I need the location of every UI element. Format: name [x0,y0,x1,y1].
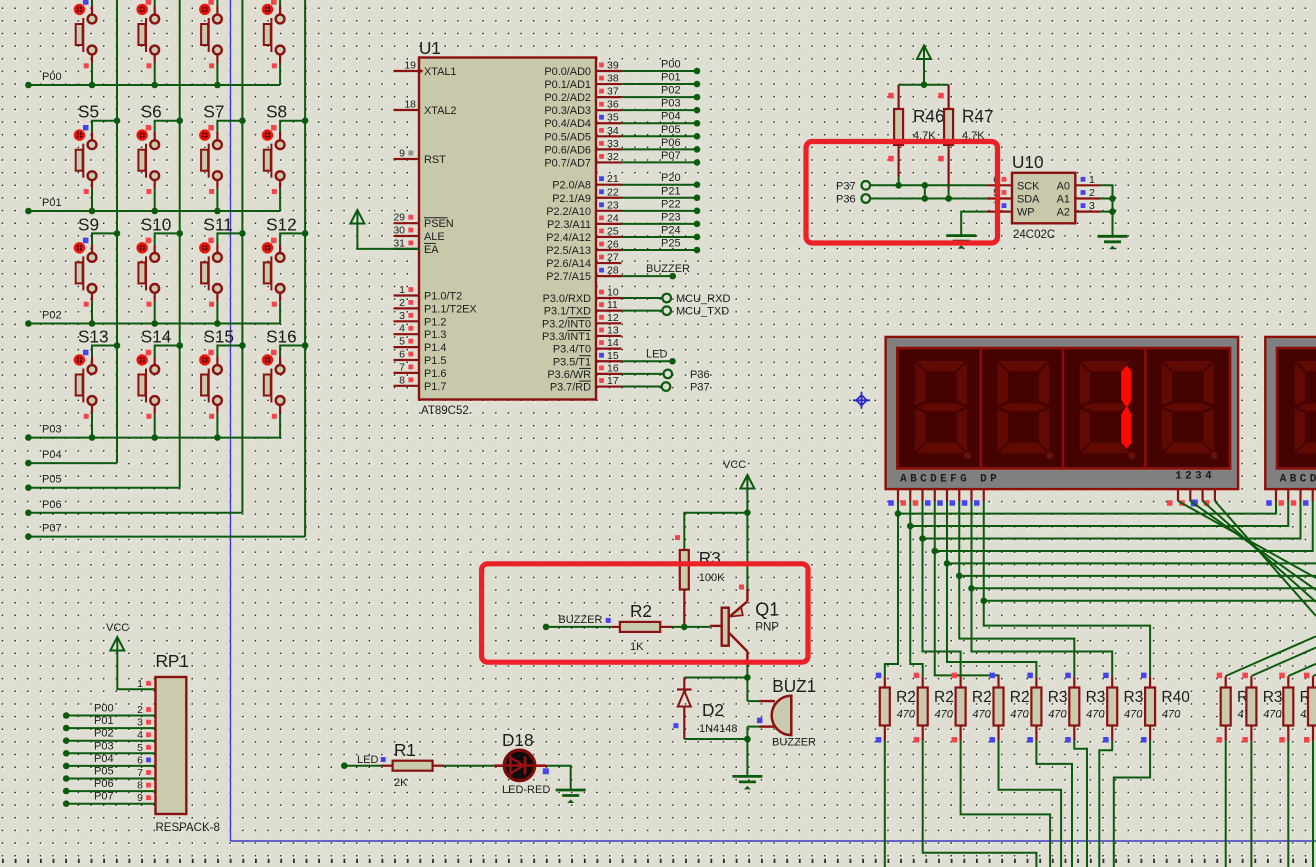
svg-text:4: 4 [399,323,405,335]
U10 pin 1 A0 [1057,174,1101,193]
svg-text:P01: P01 [42,197,62,209]
wire net P03 to RP1 pin 5 [63,750,156,757]
push button S5 [75,102,121,215]
wire net P06 to RP1 pin 8 [63,788,156,795]
resistor R1 [381,761,444,771]
push button S7 [200,102,246,215]
push button S3 [200,0,246,88]
svg-text:P3.1/TXD: P3.1/TXD [544,306,591,318]
resistor R36 470 [1304,673,1316,743]
svg-text:S8: S8 [266,102,287,122]
svg-text:P0.1/AD1: P0.1/AD1 [544,79,591,91]
wire U1 P2.7 to net BUZZER [622,273,677,280]
svg-text:470: 470 [1048,709,1067,721]
transistor Q1 PNP [722,513,748,665]
wire DS1 segment D to resistor 4 [935,551,999,676]
wire resistor R32 to bottom [1099,741,1112,867]
wire R2 to Q1 base [672,624,722,631]
svg-text:S12: S12 [266,214,297,234]
wire D2 cathode to ground node [684,736,750,743]
U1 pin 7 P1.6 [394,361,447,380]
7-segment display DS1 body [886,337,1239,489]
svg-text:3: 3 [1089,200,1095,212]
svg-text:BUZZER: BUZZER [646,263,690,275]
power VCC symbol near U1 EA [350,210,364,224]
wire column bus P05 [179,0,181,488]
svg-text:P04: P04 [661,111,681,123]
push button S12 [263,214,309,323]
DS1 segment pin G [962,489,972,506]
svg-text:S5: S5 [78,102,99,122]
svg-text:AT89C52: AT89C52 [421,405,469,417]
wire net P07 [25,533,305,540]
svg-text:P36: P36 [690,369,710,381]
svg-text:15: 15 [607,350,619,362]
svg-text:P3.3/INT1: P3.3/INT1 [542,331,591,343]
svg-text:P0.2/AD2: P0.2/AD2 [544,92,591,104]
DS1 segment pin E [937,489,947,506]
push button S16 [263,327,309,438]
svg-text:10: 10 [607,287,619,299]
svg-text:2K: 2K [394,777,408,789]
svg-text:U1: U1 [419,38,441,58]
wire R1 to D18 [444,765,497,767]
svg-text:16: 16 [607,362,619,374]
svg-text:S11: S11 [203,214,232,234]
svg-text:R1: R1 [394,740,416,760]
svg-text:Q1: Q1 [755,600,779,620]
resistor R26 470 [914,673,928,743]
push button S14 [137,327,183,441]
svg-text:P37: P37 [836,180,856,192]
RP1 pin 8 [137,780,151,792]
ground symbol below D18 [556,790,586,803]
wire VCC to Q1 emitter and R3 [684,489,750,551]
blue pin mark near R1 [381,757,386,762]
svg-text:9: 9 [137,792,143,804]
svg-text:P06: P06 [94,778,114,790]
svg-text:P23: P23 [661,211,681,223]
svg-text:P04: P04 [42,449,62,461]
svg-text:11: 11 [607,299,618,311]
svg-text:P2.7/A15: P2.7/A15 [546,271,591,283]
DS1 digit pin 4 [1204,489,1215,506]
wire DS1 segment DP bus [980,501,1316,604]
svg-text:P1.6: P1.6 [424,368,446,380]
DS1 digit divider [1144,349,1146,467]
svg-text:23: 23 [607,199,619,211]
svg-text:1234: 1234 [1175,471,1215,483]
svg-text:R2: R2 [934,689,954,706]
blue pin mark near BUZZER [606,618,611,623]
U1 pin 31 EA [393,237,439,256]
svg-text:ALE: ALE [424,231,445,243]
svg-text:34: 34 [607,125,619,137]
wire row net P03 [25,434,280,441]
RP1 pin 9 [137,792,151,804]
U1 pin 25 P2.4/A12 [546,225,621,244]
svg-text:2: 2 [137,704,143,716]
svg-text:ABCDEFG DP: ABCDEFG DP [1280,474,1316,486]
svg-text:P0.0/AD0: P0.0/AD0 [544,66,591,78]
svg-text:1: 1 [137,678,143,690]
wire resistor R34 to bottom [1250,741,1252,867]
svg-text:SDA: SDA [1017,194,1040,206]
U1 pin 15 P3.5/T1 [553,350,622,369]
svg-text:PSEN: PSEN [424,218,454,230]
push button S11 [200,214,246,326]
wire net P01 to RP1 pin 3 [63,725,156,732]
svg-text:P3.5/T1: P3.5/T1 [553,356,591,368]
resistor pack RP1 body [156,677,187,814]
svg-text:22: 22 [607,186,619,198]
wire net BUZZER to R2 [543,624,612,631]
wire U1 P3.7 to terminal P37 [622,382,671,391]
svg-text:1K: 1K [630,641,644,653]
resistor R2 [612,622,672,632]
wire U1 P2.1 to net P21 [622,194,701,201]
svg-text:8: 8 [137,780,143,792]
wire column bus P04 [116,0,118,463]
svg-text:18: 18 [404,99,416,111]
svg-text:6: 6 [399,349,405,361]
svg-text:SCK: SCK [1017,180,1040,192]
svg-text:R46: R46 [913,106,945,126]
RP1 pin 6 [137,754,151,766]
svg-text:ABCDEFG DP: ABCDEFG DP [900,474,1000,486]
wire DS1 segment D bus [931,501,1312,554]
svg-text:P07: P07 [42,523,62,535]
svg-text:470: 470 [1263,709,1282,721]
svg-text:WP: WP [1017,207,1035,219]
wire resistor R27 to bottom [961,741,1051,867]
U1 pin 28 P2.7/A15 [546,265,621,284]
svg-text:1: 1 [399,284,405,296]
svg-text:36: 36 [607,99,619,111]
wire buzzer to ground [746,739,748,776]
wire net P07 to RP1 pin 9 [63,800,156,807]
svg-text:XTAL1: XTAL1 [424,66,457,78]
svg-text:P3.4/T0: P3.4/T0 [553,344,591,356]
svg-text:P1.3: P1.3 [424,329,446,341]
svg-text:P21: P21 [661,185,681,197]
wire column bus P06 [241,0,243,513]
svg-text:VCC: VCC [106,622,129,634]
wire U1 P3.0 to terminal MCU_RXD [622,294,672,303]
resistor R28 470 [989,673,1003,743]
wire diagonal to resistor R36 [1313,675,1316,676]
power VCC symbol above R46/R47 [917,46,931,60]
DS1 segment pin C [913,489,923,506]
wire DS1 segment DP to resistor 8 [984,601,1150,677]
svg-text:P25: P25 [661,238,681,250]
svg-text:P1.2: P1.2 [424,316,446,328]
wire DS1 segment F bus [956,501,1316,579]
RP1 pin 2 [137,704,151,716]
U1 pin 17 P3.7/RD [550,375,622,394]
ground symbol below BUZ1 [732,776,762,789]
U1 pin 23 P2.2/A10 [546,199,621,218]
svg-text:D2: D2 [702,700,724,720]
svg-text:13: 13 [607,324,619,336]
U10 pin 7 WP [987,200,1035,219]
svg-text:R40: R40 [1161,689,1190,706]
svg-text:R2: R2 [896,689,916,706]
push button S6 [137,102,183,215]
U1 pin 39 P0.0/AD0 [544,60,621,79]
svg-text:470: 470 [935,709,954,721]
svg-text:P2.1/A9: P2.1/A9 [552,193,591,205]
svg-text:38: 38 [607,73,619,85]
svg-text:35: 35 [607,112,619,124]
red highlight box around EEPROM circuit [806,142,998,244]
svg-text:BUZ1: BUZ1 [772,676,816,696]
svg-text:P05: P05 [94,766,114,778]
svg-text:P3.2/INT0: P3.2/INT0 [542,318,591,330]
wire row net P00 [25,82,280,89]
wire net P00 to RP1 pin 2 [63,712,156,719]
DS1 segment pin D [925,489,935,506]
svg-text:R47: R47 [962,106,994,126]
svg-text:P06: P06 [42,499,62,511]
wire diagonal to resistor R35 [1288,664,1316,676]
svg-text:R3: R3 [1048,689,1068,706]
U1 pin 9 RST [394,148,447,167]
push button S10 [137,214,183,326]
svg-text:4: 4 [137,729,143,741]
wire diagonal to resistor R33 [1226,636,1316,676]
svg-text:32: 32 [607,151,619,163]
U1 pin 35 P0.4/AD4 [544,112,621,130]
svg-text:A1: A1 [1057,194,1070,206]
DS2 segment pin C [1291,489,1301,506]
svg-text:S7: S7 [203,102,224,122]
wire U1 P2.3 to net P23 [622,221,701,228]
U1 pin 38 P0.1/AD1 [544,73,621,92]
svg-text:D18: D18 [502,730,534,750]
svg-text:39: 39 [607,60,619,72]
wire U1 P2.5 to net P25 [622,247,701,254]
wire DS1 segment A bus [895,501,1276,517]
DS2 digit 1 segments [1295,361,1316,459]
wire DS1 segment A to resistor 1 [885,514,898,677]
svg-text:S10: S10 [141,214,172,234]
svg-text:470: 470 [897,709,916,721]
resistor R3 [675,535,689,627]
U1 pin 2 P1.1/T2EX [394,297,478,316]
U1 pin 32 P0.7/AD7 [544,151,621,170]
U1 pin 24 P2.3/A11 [547,212,622,231]
wire diagonal to resistor R34 [1251,648,1316,676]
DS1 digit 2 segments [997,361,1053,459]
wire resistor R35 to bottom [1287,741,1289,867]
U1 pin 5 P1.4 [394,336,447,355]
svg-text:S14: S14 [141,327,172,347]
wire VCC to U1 EA pin [357,224,419,249]
U1 pin 18 XTAL2 [394,99,457,118]
U1 pin 30 ALE [393,225,444,244]
svg-text:14: 14 [607,337,619,349]
wire VCC down to R46 R47 [899,59,949,88]
wire net P06 [25,510,242,517]
U1 pin 13 P3.3/INT1 [542,324,622,343]
svg-text:P2.3/A11: P2.3/A11 [547,219,591,231]
RP1 pin 7 [137,767,151,779]
svg-text:33: 33 [607,138,619,150]
U1 pin 6 P1.5 [394,349,447,368]
svg-text:S6: S6 [141,102,162,122]
svg-text:8: 8 [399,374,405,386]
wire DS1 digit 2 select diagonal [1190,501,1316,590]
DS1 digit pin 3 [1191,489,1203,506]
DS1 digit divider [980,349,982,467]
DS1 segment pin A [888,489,898,506]
U1 pin 22 P2.1/A9 [552,186,621,205]
svg-text:30: 30 [393,225,405,237]
wire resistor R40 to bottom [1114,741,1150,867]
U1 pin 27 P2.6/A14 [546,252,621,271]
svg-text:LED: LED [646,348,667,360]
wire U1 P3.1 to terminal MCU_TXD [622,306,672,315]
wire Q1 collector to buzzer node [684,665,759,739]
DS2 segment pin A [1266,489,1276,506]
DS2 segment pin B [1279,489,1289,506]
wire U1 P2.2 to net P22 [622,208,701,215]
svg-text:27: 27 [607,252,619,264]
svg-text:P22: P22 [661,198,681,210]
wire U10 A0 A1 A2 to ground [1100,185,1115,236]
svg-text:P05: P05 [661,124,681,136]
wire net P04 to RP1 pin 6 [63,763,156,770]
bottom grid tick row [2,859,1307,863]
wire DS1 segment C bus [919,501,1300,542]
wire DS1 segment G bus [968,501,1316,592]
svg-text:A2: A2 [1057,207,1070,219]
wire net P02 to RP1 pin 4 [63,737,156,744]
svg-text:17: 17 [607,375,619,387]
wire D18 to ground [547,766,571,790]
svg-text:P0.7/AD7: P0.7/AD7 [544,157,591,169]
svg-text:LED-RED: LED-RED [502,784,550,796]
red highlight box around buzzer driver [482,564,808,662]
push button S1 [75,0,121,88]
svg-text:S13: S13 [78,327,109,347]
DS1 segment pin F [950,489,960,506]
svg-text:P02: P02 [661,85,681,97]
origin marker crosshair [853,392,870,409]
wire VCC to RP1 pin1 [117,651,155,690]
wire DS1 segment B to resistor 2 [910,526,922,676]
resistor R40 470 [1141,673,1155,743]
wire resistor R33 to bottom [1225,741,1227,867]
U1 pin 34 P0.5/AD5 [544,125,621,144]
wire row net P01 [25,208,280,215]
wire DS1 segment G to resistor 7 [972,588,1113,676]
resistor R27 470 [952,673,966,743]
svg-text:S15: S15 [203,327,234,347]
svg-text:P3.0/RXD: P3.0/RXD [543,293,592,305]
microcontroller U1 AT89C52 body [419,58,596,400]
diode D2 1N4148 [673,678,691,740]
power VCC symbol above Q1 [740,475,754,489]
wire U1 P0.7 to net P07 [622,159,701,166]
U1 pin 14 P3.4/T0 [553,337,622,356]
svg-text:25: 25 [607,225,619,237]
resistor R33 470 [1217,673,1231,743]
svg-text:P07: P07 [661,150,681,162]
svg-text:470: 470 [1086,709,1105,721]
wire net P05 [25,484,180,491]
svg-text:P00: P00 [94,703,114,715]
svg-text:P1.1/T2EX: P1.1/T2EX [424,303,477,315]
svg-text:P3.7/RD: P3.7/RD [550,382,591,394]
DS1 segment pin B [901,489,911,506]
wire U1 P0.6 to net P06 [622,146,701,153]
DS1 digit pin 1 [1167,489,1178,506]
svg-text:24C02C: 24C02C [1013,229,1055,241]
svg-text:P37: P37 [690,382,710,394]
DS1 segment pin DP [974,489,984,506]
svg-text:P1.7: P1.7 [424,381,446,393]
sheet border blue line vertical [230,0,232,841]
push button S9 [75,214,121,326]
svg-text:1: 1 [1089,174,1095,186]
svg-text:P0.5/AD5: P0.5/AD5 [544,131,591,143]
U1 pin 36 P0.3/AD3 [544,99,621,118]
svg-text:PNP: PNP [755,622,779,634]
resistor R34 470 [1242,673,1256,743]
wire resistor R30 to bottom [1036,741,1072,867]
resistor R30 470 [1027,673,1041,743]
svg-text:MCU_TXD: MCU_TXD [676,306,729,318]
svg-text:9: 9 [399,148,405,160]
svg-text:P06: P06 [661,137,681,149]
svg-text:37: 37 [607,86,619,98]
svg-text:3: 3 [137,717,143,729]
sheet border blue line horizontal [231,840,1316,842]
svg-text:2: 2 [1089,187,1095,199]
DS2 segment pin D [1303,489,1313,506]
U10 pin 5 SDA [987,187,1040,206]
wire resistor R36 to bottom [1312,741,1314,867]
svg-text:470: 470 [1010,709,1029,721]
U1 pin 12 P3.2/INT0 [542,312,622,331]
svg-text:28: 28 [607,265,619,277]
push button S15 [200,327,246,441]
wire net P04 [25,460,117,467]
U1 pin 8 P1.7 [394,374,447,393]
svg-text:P03: P03 [94,740,114,752]
svg-text:LED: LED [357,754,378,766]
wire DS1 digit 1 select diagonal [1178,501,1316,578]
svg-text:12: 12 [607,312,619,324]
svg-text:19: 19 [404,60,416,72]
svg-text:P0.6/AD6: P0.6/AD6 [544,144,591,156]
U1 pin 19 XTAL1 [394,60,457,79]
svg-text:6: 6 [137,754,143,766]
U1 pin 4 P1.3 [394,323,447,342]
wire U1 P0.5 to net P05 [622,133,701,140]
RP1 pin 1 [137,678,151,690]
svg-text:P02: P02 [42,310,62,322]
svg-text:R3: R3 [1124,689,1144,706]
RP1 pin 5 [137,742,151,754]
svg-text:7: 7 [137,767,143,779]
wire DS1 segment E bus [944,501,1316,567]
svg-text:P01: P01 [661,72,681,84]
wire U10 WP to ground [961,212,987,236]
svg-text:RESPACK-8: RESPACK-8 [156,822,220,834]
